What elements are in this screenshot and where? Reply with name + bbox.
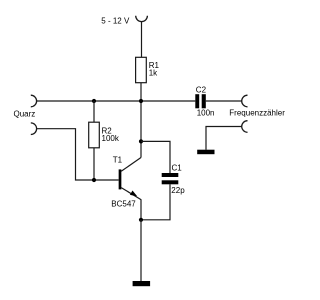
wire output ground: [206, 127, 242, 150]
resistor R1: [136, 57, 147, 82]
svg-text:C2: C2: [196, 86, 207, 95]
svg-text:T1: T1: [113, 156, 123, 165]
transistor Q1 base bar: [119, 169, 122, 189]
capacitor C2: [195, 94, 199, 108]
connector Frequenzzaehler upper: [242, 95, 248, 107]
svg-text:Quarz: Quarz: [14, 109, 36, 118]
wire R2 top: [93, 101, 95, 122]
svg-text:5 - 12 V: 5 - 12 V: [101, 16, 130, 25]
wire collector to C1: [141, 141, 170, 173]
svg-text:100k: 100k: [102, 134, 120, 143]
wire R1 to collector: [140, 83, 142, 158]
wire C1 to emitter node: [141, 184, 170, 220]
ground bottom: [133, 281, 151, 286]
connector Quarz lower: [31, 123, 37, 135]
capacitor C1: [162, 173, 179, 177]
svg-text:BC547: BC547: [111, 199, 136, 208]
svg-text:C1: C1: [172, 164, 183, 173]
wire emitter down: [140, 199, 142, 220]
wire R2 bottom: [93, 148, 95, 180]
wire main horizontal: [37, 100, 196, 102]
wire quarz lower to base: [37, 129, 119, 180]
transistor Q1 emitter line: [121, 188, 141, 200]
wire emitter node to ground: [140, 220, 142, 281]
transistor Q1 collector line: [121, 158, 141, 172]
resistor R2: [89, 122, 100, 148]
svg-text:22p: 22p: [171, 186, 185, 195]
node junction emitter-C1: [139, 218, 143, 222]
svg-text:100n: 100n: [197, 109, 215, 118]
power connector 5-12V: [136, 16, 148, 22]
wire V+ to R1: [141, 22, 143, 58]
node junction base-R2: [92, 178, 96, 182]
connector Quarz upper: [31, 95, 37, 107]
node junction V+ rail: [139, 99, 143, 103]
wire C2 to output: [206, 100, 242, 102]
node junction collector-C1: [139, 139, 143, 143]
svg-text:Frequenzzähler: Frequenzzähler: [229, 109, 285, 118]
transistor Q1 emitter arrow: [130, 191, 137, 197]
node junction main-R2: [92, 99, 96, 103]
svg-text:1k: 1k: [149, 68, 158, 77]
connector Frequenzzaehler lower: [242, 121, 248, 133]
ground output: [197, 150, 214, 155]
